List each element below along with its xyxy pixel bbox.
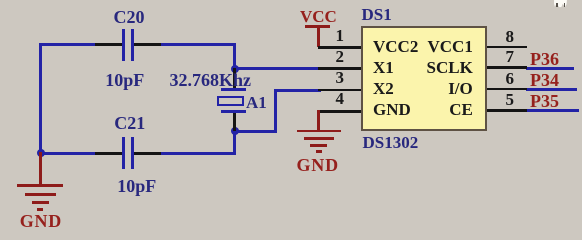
chip pin 2 stub xyxy=(318,67,362,70)
chip DS1 pin 1 stub xyxy=(318,46,362,49)
net label P35 xyxy=(530,92,559,110)
wire: X2 vertical riser xyxy=(274,89,277,133)
ground symbol bottom left: stem xyxy=(39,152,42,185)
junction dot: X2 node at crystal bottom xyxy=(231,127,239,135)
crystal A1 pin bottom xyxy=(233,111,236,131)
cursor artifact leg left xyxy=(556,3,558,7)
chip pin 4 stub xyxy=(318,110,362,113)
pin number 3 xyxy=(336,69,345,86)
wire: X2 horizontal from junction toward pin3 riser xyxy=(233,130,277,133)
crystal A1 pin top xyxy=(233,68,236,89)
pin name X1 xyxy=(373,59,394,76)
junction dot: GND node bottom left xyxy=(37,149,45,157)
pin name VCC2 xyxy=(373,38,418,55)
ground bar 1 xyxy=(297,130,341,133)
pin name GND xyxy=(373,101,411,118)
ground bar 2 xyxy=(304,137,334,140)
chip pin 3 stub xyxy=(318,89,362,92)
capacitor C20 pin right xyxy=(133,43,161,46)
wire: bottom net X2 left segment xyxy=(39,152,97,155)
pin number 4 xyxy=(336,90,345,107)
crystal A1 bottom plate xyxy=(221,110,246,113)
capacitor C20 pin left xyxy=(95,43,123,46)
pin name CE xyxy=(449,101,473,118)
crystal A1 value 32.768Khz xyxy=(170,71,252,89)
wire: bottom net X2 right segment xyxy=(159,152,236,155)
power port VCC label xyxy=(300,8,337,25)
ground bar 1 left xyxy=(17,184,63,187)
wire: SCLK net to P36 xyxy=(526,67,574,70)
junction dot: X1 node at crystal top xyxy=(231,65,239,73)
wire: X2 horizontal to chip pin 3 xyxy=(274,89,321,92)
crystal A1 designator xyxy=(246,94,267,111)
ground label GND right xyxy=(297,156,339,174)
ground symbol at chip pin 4: stem xyxy=(317,110,320,131)
power port VCC stem xyxy=(317,25,320,47)
pin number 2 xyxy=(336,48,345,65)
net label P36 xyxy=(530,50,559,68)
cursor artifact leg right xyxy=(564,3,566,8)
wire: X1 horizontal to chip pin 2 xyxy=(233,67,320,70)
pin number 5 xyxy=(506,91,515,108)
crystal A1 top plate xyxy=(221,88,246,91)
wire: top net X1 left segment xyxy=(39,43,97,46)
capacitor C20 plate left xyxy=(122,29,125,61)
pin name SCLK xyxy=(427,59,473,76)
chip pin 6 stub xyxy=(487,88,527,91)
wire: top net X1 right segment xyxy=(159,43,236,46)
chip pin 8 stub xyxy=(487,46,527,49)
capacitor C21 designator xyxy=(114,114,145,132)
capacitor C21 value 10pF xyxy=(117,177,156,195)
capacitor C21 plate left xyxy=(122,137,125,169)
ground label GND left xyxy=(20,212,62,230)
capacitor C20 plate right xyxy=(131,29,134,61)
power port VCC bar xyxy=(305,25,330,28)
wire: I/O net to P34 xyxy=(526,88,577,91)
net label P34 xyxy=(530,71,559,89)
wire: CE net to P35 xyxy=(526,109,579,112)
IC designator DS1 xyxy=(362,6,392,23)
capacitor C21 pin right xyxy=(133,152,161,155)
pin name X2 xyxy=(373,80,394,97)
wire: vertical below crystal junction to bottom wire xyxy=(233,130,236,155)
capacitor C20 value 10pF xyxy=(105,71,144,89)
IC U1 DS1302 body xyxy=(361,26,487,131)
ground bar 2 left xyxy=(25,193,56,196)
ground bar 4 xyxy=(316,150,322,153)
pin number 6 xyxy=(506,70,515,87)
pin number 8 xyxy=(506,28,515,45)
ground bar 3 left xyxy=(32,201,49,204)
crystal A1 body box xyxy=(217,96,244,106)
pin number 7 xyxy=(506,48,515,65)
capacitor C21 plate right xyxy=(131,137,134,169)
capacitor C21 pin left xyxy=(95,152,123,155)
IC part number DS1302 xyxy=(363,134,419,151)
pin name I/O xyxy=(448,80,473,97)
chip pin 7 stub xyxy=(487,66,527,69)
ground bar 4 left xyxy=(37,208,43,211)
pin number 1 xyxy=(336,27,345,44)
wire: left vertical from top wire down to GND junction xyxy=(39,43,42,155)
ground bar 3 xyxy=(310,144,327,147)
capacitor C20 designator xyxy=(114,8,145,26)
pin name VCC1 xyxy=(428,38,473,55)
chip pin 5 stub xyxy=(487,109,527,112)
wire: vertical X1 drop from top wire to crystal junction xyxy=(233,43,236,70)
mouse cursor artifact top right xyxy=(554,0,568,8)
